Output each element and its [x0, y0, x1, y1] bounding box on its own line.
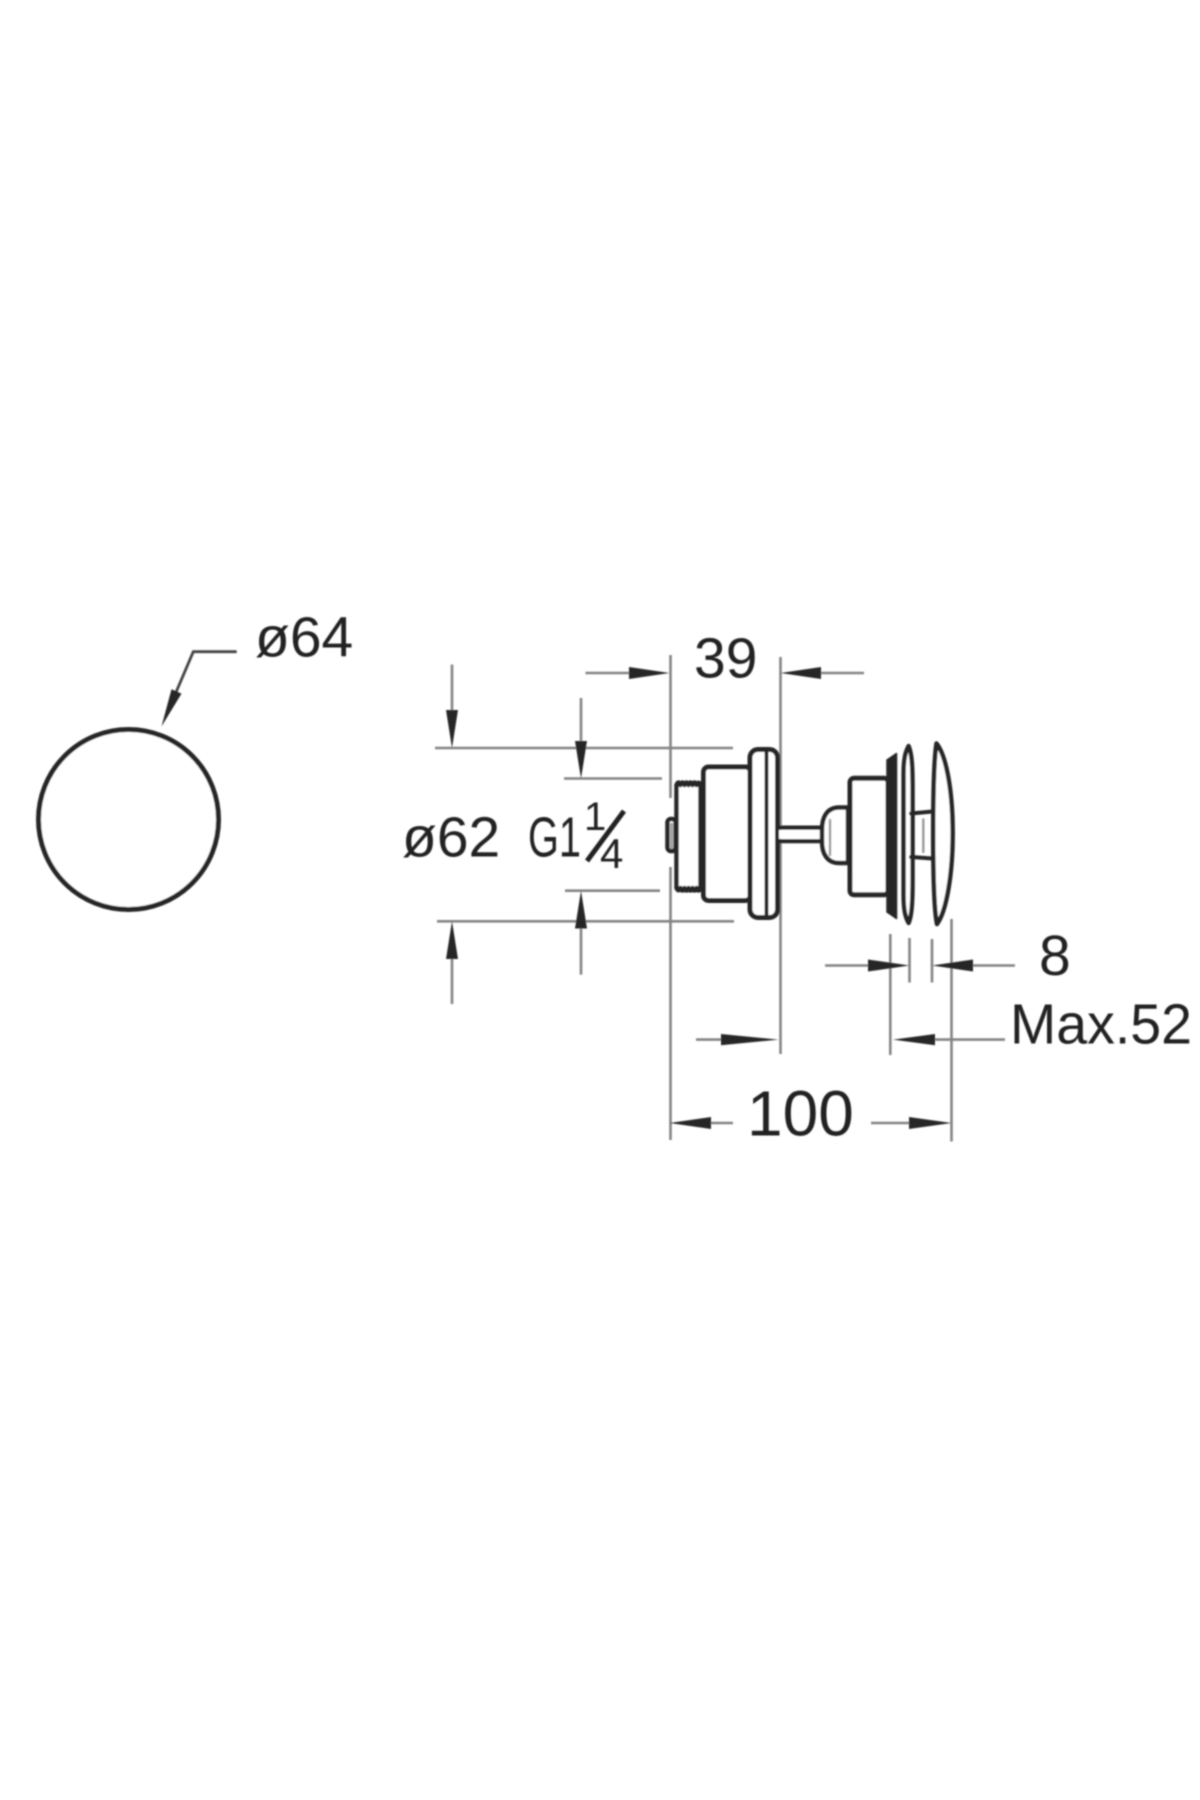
dim line 39 right segment	[819, 672, 864, 675]
dim line Max.52 left segment	[696, 1038, 723, 1041]
svg-text:ø62: ø62	[402, 806, 500, 870]
arrowhead 8 left	[868, 960, 910, 972]
bell knob on rod	[822, 808, 848, 864]
dim line 8 right segment	[971, 964, 1015, 967]
hidden line inside tab	[670, 824, 672, 848]
extension line H4 (plate bottom, o62)	[437, 920, 734, 923]
cap neck bottom line	[911, 857, 933, 859]
extension line V2 (right of 39)	[779, 657, 782, 1054]
svg-text:4: 4	[600, 830, 623, 877]
cap neck top line	[911, 812, 933, 814]
circle: plug cap top view (o64)	[39, 730, 219, 910]
arrowhead o62 top (down)	[446, 710, 458, 748]
stem of o62 bottom arrow	[451, 955, 454, 1004]
dim line Max.52 right segment	[933, 1038, 1005, 1041]
extension line V1 lower segment	[669, 867, 672, 1140]
arrowhead 39 left	[629, 667, 670, 679]
extension line V3 (Max.52 right)	[889, 934, 892, 1055]
arrowhead Max.52 right	[893, 1034, 935, 1045]
svg-text:39: 39	[694, 627, 757, 691]
svg-text:Max.52: Max.52	[1010, 993, 1192, 1057]
flange lip crescent	[904, 746, 913, 923]
flange plate inner face line	[765, 753, 769, 914]
dim line 39 left segment	[586, 672, 633, 675]
extension line V6 (100 right)	[950, 919, 953, 1142]
stem of o62 top arrow	[451, 665, 454, 715]
flange plate	[750, 750, 778, 918]
leader arrowhead o64	[162, 689, 182, 726]
extension line V4 (8 left)	[908, 938, 911, 983]
arrowhead G1 1/4 bottom (up)	[575, 891, 587, 929]
arrowhead Max.52 left	[721, 1034, 779, 1045]
extension line H2 (thread top, G1 1/4)	[564, 777, 662, 780]
rod bottom edge	[780, 839, 823, 843]
extension line V1 (left of 39/100), upper segment	[669, 655, 672, 798]
valve body (left cylinder)	[704, 767, 751, 901]
arrowhead 8 right	[932, 960, 973, 972]
dim line 100 left segment	[708, 1122, 733, 1125]
svg-text:100: 100	[747, 1078, 854, 1150]
seat cone thick bar	[887, 754, 897, 919]
stem of G1 1/4 top arrow	[580, 698, 583, 745]
svg-text:8: 8	[1039, 924, 1071, 988]
arrowhead 100 right	[909, 1117, 952, 1129]
cap dome crescent	[933, 744, 953, 925]
dim line 100 right segment	[871, 1122, 911, 1125]
threaded section G1 1/4	[677, 783, 701, 891]
arrowhead o62 bottom (up)	[446, 921, 458, 959]
stem of G1 1/4 bottom arrow	[580, 925, 583, 975]
valve body (right cylinder)	[850, 778, 888, 895]
hidden line in cap neck	[922, 819, 924, 852]
arrowhead G1 1/4 top (down)	[575, 741, 587, 779]
svg-text:ø64: ø64	[255, 606, 353, 670]
extension line H3 (thread bottom, G1 1/4)	[565, 889, 660, 892]
hidden line inside bell	[829, 820, 831, 855]
leader line for o64	[166, 652, 237, 717]
svg-text:G1: G1	[528, 806, 581, 870]
arrowhead 39 right	[781, 667, 822, 679]
extension line H1 (plate top, o62)	[435, 747, 733, 750]
label fraction slash	[587, 811, 624, 861]
rod fill	[779, 830, 823, 839]
dim line 8 left segment	[825, 964, 870, 967]
arrowhead 100 left	[670, 1117, 712, 1129]
extension line V5 (8 right)	[931, 939, 934, 983]
tailpiece tab (left small stub)	[668, 819, 676, 851]
rod top edge	[780, 825, 823, 829]
